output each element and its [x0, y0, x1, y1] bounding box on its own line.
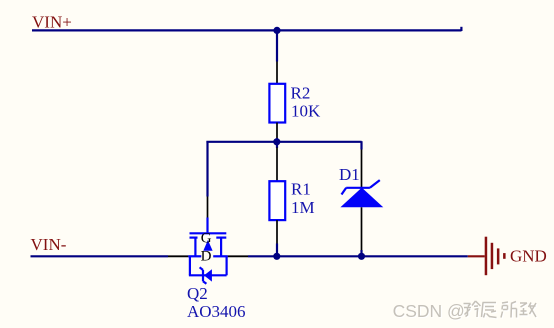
wire D1 pin to bottom junction [360, 250, 362, 256]
wire from top junction down to R2 pin [276, 30, 278, 61]
svg-text:CSDN @: CSDN @ [393, 301, 465, 321]
pin R1.2 [276, 220, 278, 244]
watermark chinese glyph strokes [464, 301, 537, 318]
wire mid horizontal (gate branch / R1 / D1 net) [206, 141, 361, 143]
svg-text:VIN-: VIN- [31, 235, 67, 254]
diode D1 zener bar left hook [342, 188, 347, 195]
transistor Q2 left leg [194, 238, 196, 257]
wire top VIN+ rail [32, 29, 462, 31]
resistor R1 [269, 181, 285, 220]
transistor Q2 body diode triangle [204, 269, 212, 281]
svg-text:GND: GND [510, 247, 547, 266]
transistor Q2 gate bar [190, 232, 227, 234]
watermark chinese glyph strokes shadow [465, 302, 537, 319]
pin R1.1 [276, 148, 278, 182]
pin R2.2 [276, 123, 278, 139]
wire stub mid junction to R1 pin [276, 142, 278, 148]
junction dot bottom R1 [273, 253, 280, 260]
pin Q2 source (left) [168, 255, 188, 257]
pin D1 cathode [361, 150, 363, 188]
wire corner down to D1 [360, 141, 362, 149]
transistor Q2 body arrow [203, 240, 212, 251]
transistor Q2 body-diode loop bottom horizontal [189, 274, 227, 276]
pin R2.1 [276, 62, 278, 85]
junction dot bottom D1 [358, 253, 365, 260]
transistor Q2 channel plate right [216, 237, 226, 239]
ground bar 1 [485, 237, 488, 276]
pin Q2 gate [207, 197, 209, 219]
pin Q2 drain (right) [228, 255, 248, 257]
resistor R2 [269, 84, 285, 123]
diode D1 anode triangle [340, 188, 383, 208]
transistor Q2 body diode bar bottom hook [203, 281, 206, 284]
transistor Q2 channel plate left [190, 237, 198, 239]
junction dot mid (R2 / R1 / gate / D1) [273, 138, 280, 145]
svg-text:D1: D1 [339, 165, 360, 184]
svg-text:R1: R1 [291, 180, 311, 199]
wire top rail end tick [460, 27, 462, 31]
ground bar 4 [503, 253, 506, 259]
transistor Q2 source/drain row left segment [188, 255, 201, 257]
ground bar 3 [497, 248, 500, 264]
wire bottom VIN- rail right [248, 255, 468, 257]
svg-text:G: G [201, 231, 212, 247]
wire bottom VIN- rail left [31, 255, 169, 257]
ground lead wire [468, 255, 485, 257]
wire from R2 pin down to mid junction [276, 138, 278, 142]
ground bar 2 [491, 243, 494, 269]
transistor Q2 body diode cathode bar [202, 270, 204, 281]
diode D1 zener bar right hook [370, 180, 380, 188]
svg-text:10K: 10K [291, 101, 321, 120]
pin D1 anode [361, 207, 363, 250]
junction dot top (VIN+ / R2) [273, 27, 280, 34]
transistor Q2 right leg [220, 238, 222, 257]
svg-text:Q2: Q2 [187, 284, 208, 303]
transistor Q2 body-diode loop left vertical [189, 256, 191, 275]
transistor Q2 body diode bar top hook [200, 267, 203, 270]
svg-text:AO3406: AO3406 [187, 302, 246, 321]
diode D1 zener cathode bar [346, 187, 370, 189]
svg-text:R2: R2 [291, 83, 311, 102]
svg-text:1M: 1M [291, 198, 315, 217]
transistor Q2 gate lead [206, 218, 208, 234]
wire left branch down to Q2 gate [206, 141, 208, 196]
svg-text:D: D [201, 248, 212, 264]
transistor Q2 body-diode loop right vertical [226, 256, 228, 275]
svg-text:VIN+: VIN+ [32, 12, 72, 31]
wire R1 pin to bottom junction [276, 244, 278, 257]
transistor Q2 source/drain row right segment [213, 255, 228, 257]
